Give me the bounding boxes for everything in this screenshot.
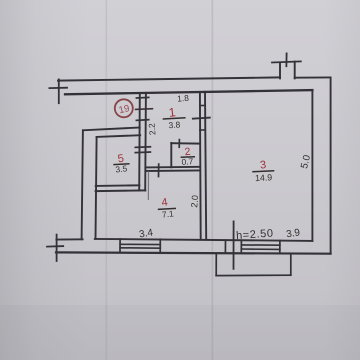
middle wall top connector bbox=[200, 105, 205, 107]
door tick room5 upper bbox=[135, 146, 150, 149]
wall: room 5 bottom inner bbox=[96, 184, 140, 187]
svg-text:7.1: 7.1 bbox=[161, 208, 174, 219]
bottom-left corner shading bbox=[0, 305, 360, 360]
wall: room 5 top bbox=[97, 135, 141, 137]
svg-text:3.8: 3.8 bbox=[168, 119, 181, 130]
wall: top inner bbox=[65, 90, 312, 94]
flat number circle 19 bbox=[115, 99, 133, 117]
door tick room 2 bbox=[178, 140, 180, 148]
svg-text:14.9: 14.9 bbox=[255, 172, 273, 183]
fraction bar room 4 bbox=[158, 208, 176, 209]
svg-text:3.5: 3.5 bbox=[115, 163, 128, 174]
door leaf room4 bbox=[147, 172, 149, 199]
axis mark vertical on shaft bbox=[285, 53, 287, 66]
svg-text:2.0: 2.0 bbox=[189, 195, 200, 208]
svg-text:3: 3 bbox=[259, 159, 266, 172]
window W1 left jamb bbox=[119, 239, 121, 253]
wall: bottom inner left segment bbox=[56, 238, 82, 240]
wall: room 5 bottom outer bbox=[96, 189, 146, 192]
fraction bar room 3 bbox=[252, 171, 274, 172]
wall: top outer (right of shaft) bbox=[295, 76, 331, 78]
wall: top outer (left of shaft) bbox=[58, 77, 280, 80]
wall: bottom outer bbox=[56, 252, 331, 253]
fraction bar room 2 bbox=[181, 156, 195, 159]
leader line from circle 19 bbox=[135, 108, 153, 111]
wall: right inner bbox=[311, 90, 313, 241]
vent shaft left side bbox=[279, 63, 281, 78]
wall: left inner bbox=[96, 137, 97, 239]
balcony door left jamb bbox=[224, 240, 226, 253]
axis cross top-left tick bbox=[49, 87, 67, 89]
window W2 pane line 1 bbox=[241, 244, 280, 246]
balcony right edge bbox=[290, 254, 292, 276]
balcony door leaf bbox=[233, 221, 235, 268]
window W1 right jamb bbox=[159, 239, 161, 253]
svg-text:0.7: 0.7 bbox=[181, 156, 194, 167]
vent shaft top tick bbox=[272, 61, 301, 62]
door tick room1-room3 bbox=[193, 118, 210, 119]
balcony bottom edge bbox=[216, 274, 291, 276]
axis cross top-left vertical bbox=[58, 79, 60, 103]
axis cross bottom-left tick bbox=[47, 245, 63, 248]
svg-text:2.2: 2.2 bbox=[146, 123, 157, 136]
door jamb tick room4 doorway bbox=[158, 164, 160, 176]
wall: bottom inner main segment bbox=[95, 239, 313, 241]
wall: right outer bbox=[330, 77, 332, 253]
wall: entrance wall right face bbox=[144, 93, 147, 191]
wall: left outer bbox=[82, 130, 83, 239]
door tick room5 lower bbox=[135, 151, 150, 154]
wall: stair landing bottom bbox=[83, 128, 140, 131]
window W2 pane line 2 bbox=[241, 248, 280, 250]
vent shaft right side bbox=[294, 62, 296, 79]
axis cross bottom-left vertical bbox=[56, 235, 58, 261]
middle wall connector below door bbox=[200, 129, 205, 131]
wall: room 2 top bbox=[171, 142, 200, 144]
wall: room1-room4 divider lower bbox=[146, 169, 200, 172]
wall: middle wall left face bbox=[199, 92, 202, 239]
paper crease right bbox=[212, 0, 214, 360]
entrance door tick lower bbox=[136, 119, 148, 122]
svg-text:3.9: 3.9 bbox=[285, 227, 301, 240]
window W1 pane line 1 bbox=[120, 243, 160, 245]
fraction bar room 1 bbox=[163, 118, 186, 119]
fraction bar room 5 bbox=[113, 163, 129, 166]
window W2 left jamb bbox=[240, 240, 242, 253]
wall: entrance wall left face bbox=[138, 93, 141, 191]
wall: room 2 left bbox=[170, 143, 172, 167]
window W2 right jamb bbox=[279, 241, 281, 254]
entrance door tick upper bbox=[136, 96, 148, 99]
balcony left edge bbox=[215, 254, 217, 276]
paper crease left bbox=[106, 0, 108, 360]
window W1 pane line 2 bbox=[120, 247, 160, 249]
wall: middle wall right face bbox=[205, 92, 206, 239]
svg-text:3.4: 3.4 bbox=[138, 227, 154, 240]
wall: room1-room4 divider upper bbox=[146, 166, 200, 169]
svg-text:1.8: 1.8 bbox=[177, 93, 190, 104]
